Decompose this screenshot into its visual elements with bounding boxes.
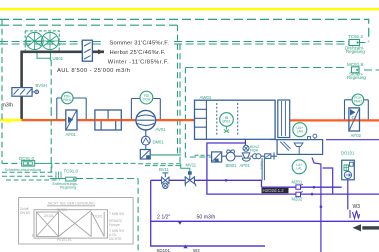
junction dot xyxy=(320,205,323,208)
svg-text:NICHT TEIL DER LIEFERUNG: NICHT TEIL DER LIEFERUNG xyxy=(48,202,95,206)
wire dashed pair y=41.5 xyxy=(0,41,349,43)
wire yellow bottom stub xyxy=(0,119,22,121)
junction dot xyxy=(313,186,316,189)
svg-text:AUL 8'500 - 25'000 m3/h: AUL 8'500 - 25'000 m3/h xyxy=(57,68,130,74)
svg-text:FIQH: FIQH xyxy=(143,97,151,101)
controller TC91.2 xyxy=(345,34,365,54)
svg-text:T MIN 5%: T MIN 5% xyxy=(109,212,124,216)
svg-text:DO101: DO101 xyxy=(341,151,355,156)
droplet eliminator xyxy=(278,100,290,138)
wire control bus dashed top xyxy=(0,19,369,41)
wire dashed vertical x=2 xyxy=(2,19,21,163)
siphon W3 xyxy=(350,204,360,218)
svg-text:PV101.EL: PV101.EL xyxy=(57,238,72,242)
svg-text:DM01: DM01 xyxy=(153,140,165,145)
motor DM01 xyxy=(141,130,164,145)
spray instrument in washer xyxy=(220,113,234,133)
svg-text:Schieberumschaltung: Schieberumschaltung xyxy=(5,168,42,172)
flow tick bottom xyxy=(183,245,187,249)
filter AF02 right xyxy=(349,108,362,138)
vfd AM01 xyxy=(140,145,181,159)
svg-text:Winter -11'C/85%r.F.: Winter -11'C/85%r.F. xyxy=(108,59,169,65)
gray inset detail xyxy=(19,198,134,245)
washer unit AW01 xyxy=(195,95,276,139)
svg-text:F7: F7 xyxy=(352,116,358,121)
wire purple bottom main xyxy=(151,220,379,222)
level instrument upper xyxy=(293,123,307,137)
svg-text:TV101: TV101 xyxy=(93,215,103,219)
svg-text:Regelung: Regelung xyxy=(60,186,76,190)
wire dashed vertical x=51 xyxy=(50,60,52,172)
wire orange supply duct right xyxy=(290,119,379,121)
flow tick xyxy=(178,221,183,224)
wire orange supply duct left xyxy=(22,119,137,121)
wire vertical bus x=177 xyxy=(177,25,179,155)
wire yellow duct line top xyxy=(0,8,379,10)
svg-text:m3/h: m3/h xyxy=(2,103,14,109)
mz symbol 2 xyxy=(292,192,303,202)
dosing station xyxy=(341,151,355,180)
basin xyxy=(270,134,323,154)
svg-text:BV11: BV11 xyxy=(159,167,170,172)
spray feed strainer xyxy=(243,139,259,152)
svg-text:LAH: LAH xyxy=(297,130,304,134)
svg-text:LAL: LAL xyxy=(296,167,302,171)
filter AF01 xyxy=(66,110,78,137)
svg-text:SD101: SD101 xyxy=(157,248,171,252)
wire purple washer drain xyxy=(207,143,379,194)
wire purple dosing drop xyxy=(347,180,349,210)
svg-text:UB01: UB01 xyxy=(53,56,64,61)
svg-text:MZ01: MZ01 xyxy=(292,179,303,184)
wire dashed y=67.5 xyxy=(185,68,379,71)
dp instrument right xyxy=(345,94,369,119)
svg-text:TC91.2: TC91.2 xyxy=(348,34,364,39)
pump line xyxy=(195,150,278,170)
fan AV01 xyxy=(136,110,166,132)
svg-text:ZV101: ZV101 xyxy=(44,214,54,218)
wire thick dark duct xyxy=(22,52,104,120)
controller MC91.8 xyxy=(347,62,366,80)
wire vertical bus x=180 xyxy=(179,44,181,164)
svg-text:TC91.0: TC91.0 xyxy=(64,168,79,173)
yellow tick xyxy=(6,121,12,122)
svg-text:AW01: AW01 xyxy=(200,95,212,100)
svg-text:EM01: EM01 xyxy=(260,162,264,170)
svg-text:Regelung: Regelung xyxy=(346,49,365,54)
svg-text:DICHTE: DICHTE xyxy=(109,237,122,241)
svg-text:AF01: AF01 xyxy=(66,132,77,137)
wire purple overflow xyxy=(323,168,333,194)
wire purple basin outlet right xyxy=(326,139,379,141)
wire dashed pair y=44 xyxy=(0,43,349,45)
svg-text:AP01: AP01 xyxy=(240,163,251,168)
svg-text:Sommer 31'C/45%r.F.: Sommer 31'C/45%r.F. xyxy=(110,41,170,47)
louvre UB01 outdoor intake xyxy=(25,31,63,61)
svg-text:H2O2d.1.2: H2O2d.1.2 xyxy=(263,188,285,193)
wire purple basin drain xyxy=(312,158,321,252)
svg-text:AV01: AV01 xyxy=(156,127,167,132)
svg-text:BVSH: BVSH xyxy=(36,83,47,88)
junction dot xyxy=(311,193,314,196)
dp instrument PDI+PAH left xyxy=(57,92,86,119)
svg-text:PV101: PV101 xyxy=(57,208,67,212)
valve BV11 xyxy=(159,167,170,188)
wire purple main P1 xyxy=(151,180,262,187)
svg-text:PAH2: PAH2 xyxy=(354,100,362,104)
mz symbol 1 xyxy=(292,179,303,189)
wire dashed bus to valves xyxy=(138,164,181,166)
wire dashed y=42.5 right of box xyxy=(360,42,369,44)
weather filter xyxy=(82,40,92,61)
svg-text:MV11: MV11 xyxy=(186,163,197,168)
svg-text:FIQH: FIQH xyxy=(250,149,259,153)
controller DC91.0 xyxy=(5,156,139,172)
svg-text:W3: W3 xyxy=(193,248,200,252)
valve MV11 motorised xyxy=(181,163,197,187)
svg-text:BM01: BM01 xyxy=(226,163,238,168)
svg-text:MC91.8: MC91.8 xyxy=(347,62,364,67)
wire orange supply duct mid xyxy=(156,119,195,121)
svg-text:M901: M901 xyxy=(223,119,231,123)
text H2O2 label xyxy=(262,188,289,193)
drain arrow black xyxy=(353,224,379,231)
controller TC91.0 xyxy=(50,168,138,189)
svg-text:F: F xyxy=(32,234,34,238)
text design conditions xyxy=(104,39,173,66)
svg-text:AF02: AF02 xyxy=(351,133,362,138)
damper BVSH xyxy=(12,83,47,96)
wire purple PA xyxy=(262,186,342,188)
wire purple meter drop xyxy=(262,158,264,180)
wire purple bottom feed xyxy=(151,245,265,247)
svg-text:50 m3/h: 50 m3/h xyxy=(197,214,216,220)
svg-text:MZ02: MZ02 xyxy=(292,196,303,201)
svg-text:W3: W3 xyxy=(353,204,361,210)
svg-text:Pumpe: Pumpe xyxy=(109,223,120,227)
svg-text:Herbst 25'C/46%r.F.: Herbst 25'C/46%r.F. xyxy=(110,50,166,56)
attenuator xyxy=(95,110,121,130)
wire vertical bus x=185.4 xyxy=(185,68,211,158)
wire control bus dashed second xyxy=(0,24,178,26)
svg-text:PAH1: PAH1 xyxy=(63,98,71,102)
wire dashed vertical x=138 xyxy=(137,179,139,252)
level instrument lower xyxy=(292,160,306,174)
svg-text:Regelung: Regelung xyxy=(347,75,366,80)
svg-text:DN BV: DN BV xyxy=(20,211,31,215)
svg-text:2 1/2": 2 1/2" xyxy=(157,214,171,220)
wire dashed bus left xyxy=(2,163,60,180)
flow instrument over fan xyxy=(131,91,160,119)
duct flow arrow xyxy=(98,49,104,54)
wire purple left loop xyxy=(151,180,265,246)
junction dot xyxy=(225,179,228,182)
